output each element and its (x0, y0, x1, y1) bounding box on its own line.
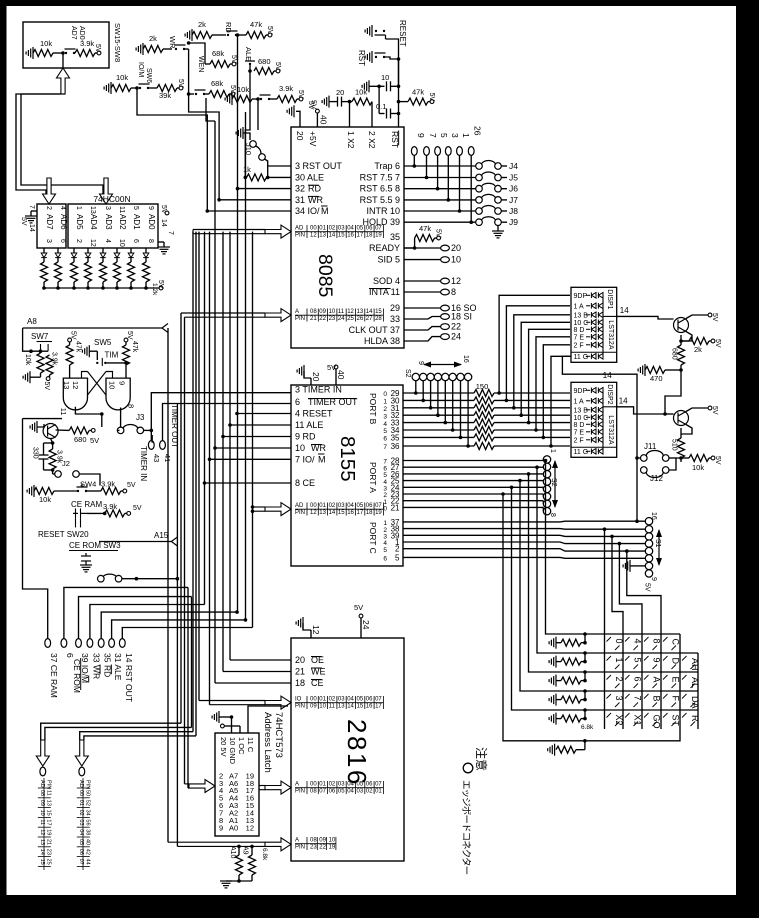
svg-text:01: 01 (319, 697, 326, 703)
2816 OE tap (230, 659, 291, 661)
resistor 1.2k AD5 (71, 262, 78, 282)
Q1 emitter to 5V (686, 315, 708, 319)
5V terminal rail (159, 286, 163, 290)
svg-text:680: 680 (74, 435, 87, 444)
diode AD7 (41, 253, 47, 258)
wire pin AD5 (73, 248, 75, 253)
svg-text:15: 15 (39, 859, 45, 865)
svg-text:11: 11 (338, 309, 345, 315)
resistor 680 (69, 427, 89, 434)
svg-text:19: 19 (375, 233, 382, 239)
svg-text:18 SI: 18 SI (451, 312, 472, 322)
svg-text:13: 13 (39, 839, 45, 845)
573 outputs to 2816 A bus arrow (259, 785, 265, 787)
svg-text:19: 19 (45, 829, 51, 835)
svg-text:5V: 5V (90, 436, 99, 445)
diode AD5 (71, 253, 77, 258)
ground (548, 744, 555, 756)
resistor 1.2k AD4 (85, 262, 92, 282)
wires feeding bottom arrows from bus (41, 723, 181, 740)
svg-text:09: 09 (319, 838, 326, 844)
svg-text:AD6: AD6 (59, 214, 68, 230)
ground (322, 96, 329, 108)
svg-text:DISP2: DISP2 (606, 384, 613, 404)
svg-text:5V: 5V (297, 90, 304, 99)
svg-text:04: 04 (347, 782, 354, 788)
A8 branch down to SW7 (23, 328, 41, 351)
port A wire (403, 480, 543, 482)
svg-text:12: 12 (89, 239, 96, 247)
svg-text:10: 10 (381, 73, 389, 82)
svg-text:01: 01 (319, 782, 326, 788)
oval 24 HLDA (404, 337, 441, 341)
svg-text:5V: 5V (43, 382, 50, 391)
svg-text:47k: 47k (250, 20, 262, 29)
DISP1 segment taps (499, 295, 570, 393)
bus arrow 2816 A (265, 781, 291, 794)
svg-text:1 OC: 1 OC (237, 737, 246, 755)
port A wire (403, 500, 543, 502)
svg-text:2: 2 (75, 239, 82, 243)
svg-text:M: M (321, 206, 329, 216)
svg-text:ST: ST (671, 715, 681, 727)
svg-text:8155: 8155 (336, 436, 359, 482)
svg-text:A: A (652, 677, 662, 683)
resistor 2k (689, 338, 709, 345)
8155 pin40 5V (334, 365, 338, 369)
5V pin14 (165, 211, 169, 215)
svg-text:5V: 5V (644, 583, 651, 592)
svg-text:22: 22 (451, 322, 461, 332)
ground (296, 617, 303, 629)
svg-text:J9: J9 (509, 217, 518, 227)
svg-text:06: 06 (78, 849, 84, 855)
edge connector oval (76, 639, 82, 648)
svg-text:5V: 5V (157, 280, 164, 289)
svg-text:RST 6.5 8: RST 6.5 8 (360, 184, 400, 194)
svg-text:10k: 10k (237, 85, 249, 94)
resistor pulldown (556, 746, 576, 753)
svg-text:10: 10 (329, 309, 336, 315)
svg-text:5V: 5V (354, 603, 363, 612)
ground (30, 421, 37, 433)
svg-text:30 ALE: 30 ALE (295, 173, 324, 183)
svg-text:X2: X2 (614, 715, 624, 726)
S2 row circles (412, 373, 419, 380)
svg-text:05: 05 (357, 697, 364, 703)
IC U4 74HCT573 (215, 733, 259, 836)
svg-text:2 F: 2 F (574, 342, 584, 349)
svg-text:14 RST OUT: 14 RST OUT (124, 653, 134, 702)
bus wire vertical (167, 328, 169, 842)
diode AD4 (85, 253, 91, 258)
svg-text:13: 13 (45, 800, 51, 806)
svg-text:18: 18 (295, 678, 305, 688)
svg-text:43: 43 (152, 454, 161, 462)
svg-text:10 C: 10 C (574, 415, 589, 422)
display DISP1 LST312A (571, 287, 617, 362)
svg-text:1.2k: 1.2k (151, 283, 158, 296)
svg-text:1: 1 (614, 658, 624, 663)
wires J11 J12 to Q2 node (669, 458, 681, 470)
svg-text:37 CE RAM: 37 CE RAM (49, 653, 59, 698)
svg-text:14: 14 (39, 849, 45, 855)
svg-text:PIN: PIN (295, 789, 305, 795)
svg-text:9: 9 (219, 823, 223, 832)
svg-text:E: E (671, 677, 681, 683)
svg-text:AD7: AD7 (70, 26, 77, 40)
svg-text:PORT C: PORT C (368, 522, 378, 554)
ground (297, 365, 304, 377)
svg-text:16: 16 (462, 355, 469, 363)
switch SW7 over resistors (41, 350, 49, 352)
svg-text:S2: S2 (550, 478, 557, 487)
svg-text:27: 27 (366, 316, 373, 322)
svg-text:INTR 10: INTR 10 (366, 206, 400, 216)
svg-text:15: 15 (338, 233, 345, 239)
keypad column risers staircase to S1 rows (604, 529, 606, 634)
svg-text:470: 470 (650, 374, 663, 383)
svg-text:40: 40 (336, 370, 346, 380)
svg-text:47k: 47k (75, 341, 82, 353)
resistor 1.2k AD1 (128, 262, 135, 282)
svg-text:03: 03 (338, 782, 345, 788)
ground under J9 (497, 225, 499, 231)
svg-text:X1: X1 (633, 715, 643, 726)
diode AD3 (100, 253, 106, 258)
svg-text:5V: 5V (310, 100, 319, 109)
row link up (584, 672, 586, 681)
pin 20 gnd stub (296, 111, 300, 127)
svg-text:A9: A9 (242, 846, 249, 855)
svg-text:10 GND: 10 GND (228, 737, 237, 765)
resistor 3.9k (277, 96, 297, 103)
svg-text:16: 16 (347, 510, 354, 516)
DISP1 pin14 wire to Q1 (603, 315, 617, 317)
jumper J8 (476, 208, 483, 215)
svg-text:01: 01 (375, 789, 382, 795)
ground (549, 637, 556, 649)
svg-text:READY: READY (369, 243, 400, 253)
resistor 2k (192, 32, 212, 39)
svg-text:PIN: PIN (295, 233, 305, 239)
wire J3 up to TIMER IN tap (151, 393, 291, 431)
svg-text:04: 04 (347, 226, 354, 232)
svg-text:23: 23 (329, 316, 336, 322)
NAND gate G1 (12,13 -> 11) (63, 378, 87, 410)
svg-text:05: 05 (78, 839, 84, 845)
ground (549, 713, 556, 725)
svg-text:10: 10 (39, 810, 45, 816)
svg-text:3.9k: 3.9k (80, 39, 94, 48)
svg-text:33: 33 (390, 314, 400, 324)
svg-text:74HCT573: 74HCT573 (273, 712, 284, 758)
svg-text:8: 8 (451, 287, 456, 297)
resistor 10k (34, 488, 54, 495)
svg-text:J12: J12 (650, 474, 663, 483)
svg-text:2: 2 (614, 677, 624, 682)
svg-text:A0: A0 (229, 823, 238, 832)
diode AD1 (128, 253, 134, 258)
svg-text:CE RAM: CE RAM (71, 500, 102, 509)
svg-text:08: 08 (310, 309, 317, 315)
svg-text:8 CE: 8 CE (295, 478, 315, 488)
svg-text:5: 5 (395, 553, 400, 562)
switch SW20 contacts (73, 508, 87, 527)
ground (236, 127, 243, 139)
resistor 47k (66, 345, 73, 365)
wire to Q2 stage (665, 370, 681, 414)
svg-text:02: 02 (329, 226, 336, 232)
svg-text:SID 5: SID 5 (377, 255, 400, 265)
svg-text:5: 5 (439, 133, 449, 138)
svg-text:5V: 5V (327, 363, 336, 372)
svg-text:34 IO/: 34 IO/ (295, 206, 320, 216)
wire pin AD7 (43, 248, 45, 253)
svg-text:RST 7.5 7: RST 7.5 7 (360, 173, 400, 183)
oval 16 SO (404, 307, 441, 309)
switch box SW15-SW8 (23, 22, 109, 68)
resistor A9 6.8k (249, 855, 256, 875)
svg-text:16: 16 (366, 704, 373, 710)
svg-text:14: 14 (329, 233, 336, 239)
svg-text:8: 8 (147, 239, 154, 243)
svg-text:03: 03 (357, 789, 364, 795)
svg-text:J5: J5 (509, 173, 518, 183)
resistor 10k (37, 353, 44, 373)
keypad bottom common wire (503, 494, 680, 741)
svg-text:PIN: PIN (295, 316, 305, 322)
svg-text:1: 1 (75, 206, 82, 210)
wires 8085 to J4-J9 (404, 165, 476, 167)
svg-text:11 ALE: 11 ALE (295, 420, 323, 430)
svg-text:3: 3 (104, 206, 111, 210)
oval 22 CLK (404, 327, 441, 330)
ground (225, 93, 232, 105)
resistor 47k (415, 235, 435, 242)
svg-text:10: 10 (295, 443, 305, 453)
jumper J6 (476, 185, 483, 192)
svg-text:11: 11 (391, 287, 400, 297)
keypad column lines (604, 634, 606, 729)
row link up (584, 653, 586, 662)
svg-text:74HC00N: 74HC00N (93, 194, 130, 204)
svg-text:06: 06 (366, 503, 373, 509)
svg-text:20 5V: 20 5V (219, 737, 228, 757)
resistor 1k in ALE net (247, 174, 267, 181)
svg-text:24: 24 (338, 316, 345, 322)
S2 vertical circles (543, 456, 550, 463)
svg-text:12: 12 (451, 276, 461, 286)
svg-text:SW6: SW6 (145, 68, 152, 83)
svg-text:05: 05 (338, 789, 345, 795)
svg-text:AD3: AD3 (104, 214, 113, 230)
svg-text:9: 9 (118, 381, 127, 385)
capacitor 0.1 (387, 109, 391, 119)
svg-text:1 X2: 1 X2 (346, 131, 356, 149)
svg-text:RST 5.5 9: RST 5.5 9 (360, 195, 400, 205)
bus wire vertical (222, 232, 224, 672)
resistor keypad row (561, 639, 581, 646)
svg-text:28: 28 (375, 316, 382, 322)
svg-text:06: 06 (366, 697, 373, 703)
svg-text:9 RD: 9 RD (295, 432, 316, 442)
svg-text:12: 12 (246, 823, 254, 832)
svg-text:21: 21 (391, 503, 400, 512)
svg-text:7: 7 (633, 696, 643, 701)
wire pin AD3 (102, 248, 104, 253)
gnd pin7 right (158, 241, 164, 243)
svg-text:02: 02 (366, 789, 373, 795)
svg-text:18: 18 (366, 510, 373, 516)
bus arrow 2816 A8-10 (265, 838, 291, 851)
ground (26, 47, 33, 59)
svg-text:7: 7 (383, 444, 387, 451)
5V terminal (268, 33, 272, 37)
5V terminal below 3.9k (46, 377, 50, 381)
svg-text:68k: 68k (212, 49, 224, 58)
resistor 150 (474, 427, 494, 434)
svg-text:03: 03 (78, 819, 84, 825)
oval 12 SOD (404, 280, 441, 282)
svg-text:01: 01 (319, 503, 326, 509)
svg-text:3: 3 (45, 239, 52, 243)
svg-text:J6: J6 (509, 184, 518, 194)
svg-text:AD1: AD1 (132, 214, 141, 230)
svg-text:330: 330 (32, 447, 39, 459)
ground (365, 51, 372, 63)
wire box to bus arrow (62, 53, 64, 68)
svg-text:9: 9 (416, 133, 426, 138)
svg-text:5V: 5V (229, 85, 236, 94)
svg-text:26: 26 (357, 316, 364, 322)
svg-text:47k: 47k (412, 88, 424, 97)
gnd pin7 left (31, 210, 37, 212)
svg-text:6: 6 (65, 653, 75, 658)
svg-text:PIN: PIN (295, 704, 305, 710)
svg-text:SW15-SW8: SW15-SW8 (113, 23, 122, 62)
svg-text:A8: A8 (27, 317, 37, 326)
svg-text:01: 01 (78, 800, 84, 806)
resistor 47k (246, 32, 266, 39)
Q1 collector node (681, 332, 692, 342)
svg-text:03: 03 (338, 503, 345, 509)
resistor 150 (474, 412, 494, 419)
wire J11 left to common column (637, 457, 641, 459)
svg-text:11: 11 (39, 819, 45, 825)
resistor 150 (474, 404, 494, 411)
svg-text:150: 150 (476, 382, 489, 391)
svg-text:26: 26 (473, 126, 483, 136)
svg-text:10: 10 (319, 704, 326, 710)
svg-text:21: 21 (295, 667, 305, 677)
svg-text:SOD 4: SOD 4 (373, 276, 400, 286)
svg-text:RESET SW20: RESET SW20 (38, 530, 89, 539)
edge connector oval (61, 639, 67, 648)
svg-text:02: 02 (329, 782, 336, 788)
svg-text:1: 1 (549, 449, 556, 453)
OC open terminal (221, 724, 225, 728)
svg-text:12: 12 (347, 309, 354, 315)
2816 pin24 5V (359, 614, 363, 618)
svg-text:9: 9 (650, 577, 657, 581)
8155 left pin bus taps (237, 413, 291, 415)
svg-text:44: 44 (84, 859, 90, 865)
resistor 3.9k (75, 50, 95, 57)
pull-up 68k RD (205, 63, 210, 65)
svg-text:AD: AD (295, 503, 304, 509)
svg-text:08: 08 (310, 838, 317, 844)
oval 18 SI (404, 317, 441, 320)
ground (287, 105, 294, 117)
svg-text:7: 7 (428, 133, 438, 138)
resistor 150 (474, 419, 494, 426)
switch SW4 (77, 484, 88, 492)
port B wire (403, 429, 474, 431)
8155 AD bus arrow tail (253, 506, 266, 508)
svg-text:10: 10 (451, 255, 461, 265)
svg-text:4: 4 (633, 639, 643, 644)
ALE switch stub (245, 61, 255, 65)
svg-text:07: 07 (78, 859, 84, 865)
svg-text:09: 09 (310, 704, 317, 710)
svg-text:10: 10 (118, 239, 125, 247)
bus wire vertical (184, 317, 186, 784)
svg-text:2k: 2k (694, 345, 702, 354)
svg-text:AD7: AD7 (45, 214, 54, 230)
wire pin AD4 (87, 248, 89, 253)
svg-text:5V: 5V (177, 79, 184, 88)
resistor keypad row (561, 658, 581, 665)
svg-text:02: 02 (329, 697, 336, 703)
READY oval 20 (404, 247, 441, 249)
svg-text:8: 8 (652, 639, 662, 644)
svg-text:17: 17 (357, 510, 364, 516)
port A wire (403, 493, 543, 495)
svg-text:11: 11 (59, 408, 68, 416)
ground (25, 216, 37, 223)
svg-text:5V: 5V (20, 217, 27, 226)
svg-text:5V: 5V (266, 26, 273, 35)
svg-text:10k: 10k (116, 73, 128, 82)
resistor 3.9k (46, 355, 53, 375)
svg-text:0: 0 (614, 639, 624, 644)
A8 net line (23, 327, 162, 329)
svg-text:エッジボードコネクター: エッジボードコネクター (460, 780, 471, 875)
svg-text:5: 5 (633, 658, 643, 663)
IC U3 2816 (291, 638, 404, 861)
resistor 1.2k AD6 (55, 262, 62, 282)
svg-text:17: 17 (45, 819, 51, 825)
resistor keypad row (561, 696, 581, 703)
svg-text:14: 14 (620, 306, 629, 315)
svg-text:24: 24 (361, 620, 371, 630)
svg-text:8: 8 (549, 513, 556, 517)
port B wire (403, 422, 474, 424)
svg-text:47k: 47k (131, 341, 138, 353)
bus arrow 2816 IO (265, 696, 291, 709)
svg-text:AD2: AD2 (118, 214, 127, 230)
svg-text:RESET: RESET (398, 20, 407, 47)
svg-text:WEN: WEN (197, 56, 204, 72)
S2 row range arrow (424, 364, 461, 366)
svg-text:14: 14 (603, 371, 612, 380)
svg-text:A: A (295, 309, 299, 315)
svg-text:33: 33 (91, 653, 101, 663)
svg-text:13 B: 13 B (574, 407, 589, 414)
svg-text:6: 6 (633, 677, 643, 682)
svg-text:J11: J11 (644, 442, 657, 451)
